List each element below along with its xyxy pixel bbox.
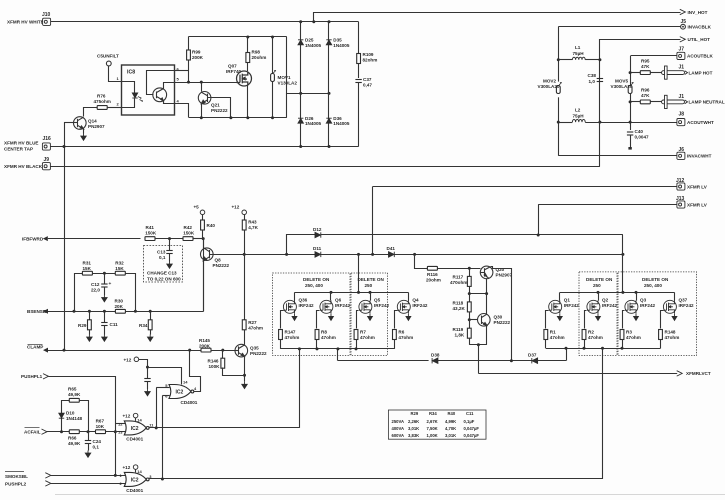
svg-text:BSENSE: BSENSE (27, 309, 46, 314)
faint page frame bottom (55, 494, 725, 496)
svg-text:XFMR LV: XFMR LV (687, 202, 708, 207)
svg-text:D11: D11 (313, 246, 322, 251)
wire Q3 gate (623, 311, 625, 329)
transistor Q20 (480, 266, 493, 279)
node SMOKSBL / PUSHPL1 riser (114, 474, 117, 477)
node R96 tap (629, 100, 632, 103)
svg-text:PN2222: PN2222 (250, 351, 267, 356)
resistor R40 (202, 215, 204, 221)
wire J9 rail (50, 166, 600, 168)
wire IC8 pin5 to Q07 gate (175, 82, 237, 84)
svg-text:IRF242: IRF242 (679, 303, 695, 308)
wire BSENSE corner to Q8 emitter (203, 311, 205, 313)
svg-text:DELETE ON: DELETE ON (303, 277, 330, 282)
wire gate1 pin5 riser (156, 388, 158, 428)
svg-text:600VA: 600VA (392, 433, 405, 438)
svg-text:INV_HOT: INV_HOT (688, 10, 708, 15)
svg-text:49,9K: 49,9K (68, 441, 81, 446)
svg-text:R147: R147 (285, 330, 296, 335)
wire ACOUTBLK (631, 55, 677, 57)
node gate2 out / pin5 riser (155, 426, 158, 429)
wire UTIL_HOT (600, 40, 681, 167)
svg-text:PN2222: PN2222 (211, 108, 228, 113)
svg-text:J7: J7 (679, 47, 685, 53)
MOSFET Q1 (549, 300, 562, 313)
svg-text:Q07: Q07 (228, 64, 237, 69)
svg-text:4,7K: 4,7K (248, 225, 258, 230)
node R117 top (468, 267, 471, 270)
svg-text:DELETE ON: DELETE ON (642, 277, 669, 282)
node J10/D35 (328, 20, 331, 23)
resistor R65 loop (62, 401, 70, 432)
svg-text:ACOUTWHT: ACOUTWHT (687, 120, 714, 125)
svg-text:82ohm: 82ohm (363, 57, 378, 62)
svg-text:J10: J10 (42, 12, 51, 18)
node R117 bottom (468, 292, 471, 295)
svg-text:C11: C11 (110, 322, 119, 327)
svg-text:47ohm: 47ohm (398, 335, 413, 340)
svg-text:R41: R41 (146, 225, 155, 230)
svg-text:C38: C38 (588, 73, 597, 78)
wire IFBFWRD (48, 238, 141, 240)
svg-text:47ohm: 47ohm (665, 335, 680, 340)
wire PUSHPL2 (51, 483, 126, 485)
svg-text:1N4005: 1N4005 (305, 121, 322, 126)
capacitor C37 (355, 80, 361, 83)
svg-text:47ohm: 47ohm (550, 335, 565, 340)
main bus from Q8 base (209, 254, 315, 256)
svg-text:47K: 47K (641, 93, 650, 98)
diode D26 (298, 118, 303, 123)
svg-text:20K: 20K (115, 304, 124, 309)
svg-text:250: 250 (365, 283, 373, 288)
svg-text:R65: R65 (68, 387, 77, 392)
svg-text:200K: 200K (199, 343, 211, 348)
svg-text:0,0047: 0,0047 (635, 135, 649, 140)
node R7 (355, 347, 358, 350)
node C11 (103, 310, 106, 313)
node Q21 base riser (229, 116, 232, 119)
diode D36 (326, 118, 331, 123)
svg-text:Q6: Q6 (335, 298, 342, 303)
node Q2 drain (597, 291, 600, 294)
capacitor C24 (88, 432, 90, 440)
svg-text:3,01K: 3,01K (445, 433, 456, 438)
svg-text:+12: +12 (123, 413, 131, 418)
svg-text:R32: R32 (115, 261, 124, 266)
svg-text:CD4001: CD4001 (126, 488, 143, 493)
svg-text:CENTER TAP: CENTER TAP (4, 147, 33, 152)
capacitor C26 (147, 367, 149, 378)
wire drive riser right bank (602, 348, 604, 479)
wire Q5 gate (357, 311, 359, 329)
arrow UTIL_HOT (680, 37, 686, 42)
dotted box DELETE ON 250,400 (right) (618, 272, 697, 356)
svg-text:Q1: Q1 (564, 298, 571, 303)
wire J12 riser (372, 187, 374, 255)
svg-text:1: 1 (117, 76, 120, 81)
wire J12 (373, 186, 677, 188)
svg-text:Q30: Q30 (494, 315, 503, 320)
svg-text:C12: C12 (91, 282, 100, 287)
wire right bank feed riser (622, 235, 624, 292)
svg-text:7,50K: 7,50K (427, 426, 438, 431)
node Q5 drain (369, 291, 372, 294)
svg-text:1N4148: 1N4148 (66, 416, 83, 421)
svg-text:47K: 47K (641, 64, 650, 69)
node Q6 drain (330, 291, 333, 294)
resistor R27 (244, 320, 246, 322)
arrow INV_HOT (680, 9, 686, 14)
svg-text:150K: 150K (183, 230, 195, 235)
svg-text:J9: J9 (44, 157, 50, 163)
wire riser to XFMRLVCT (478, 345, 480, 374)
svg-text:XFMRLVCT: XFMRLVCT (686, 371, 711, 376)
opto-isolator IC8 (122, 65, 175, 115)
svg-text:1,0: 1,0 (589, 79, 596, 84)
svg-text:R116: R116 (427, 272, 438, 277)
svg-text:C13: C13 (157, 250, 166, 255)
svg-text:20ohm: 20ohm (426, 278, 441, 283)
svg-text:75µH: 75µH (573, 113, 585, 118)
svg-text:D36: D36 (333, 116, 342, 121)
svg-text:15K: 15K (115, 266, 124, 271)
svg-text:R67: R67 (96, 419, 105, 424)
svg-text:R40: R40 (207, 223, 216, 228)
svg-text:47ohm: 47ohm (285, 335, 300, 340)
svg-text:R27: R27 (248, 320, 257, 325)
wire Q1 gate (546, 311, 549, 329)
divider loop top wire (75, 274, 83, 312)
node drive riser right (601, 347, 604, 350)
svg-text:PUSHPL2: PUSHPL2 (5, 481, 27, 486)
wire Q14 base riser down left side (64, 122, 66, 350)
wire Q6 gate (317, 311, 320, 329)
node bus end (621, 253, 624, 256)
node R116 riser (413, 253, 416, 256)
diode D12 branch (287, 235, 316, 255)
riser D-line to left gate bus (337, 349, 339, 361)
svg-text:R95: R95 (641, 59, 650, 64)
node J16/D26 (299, 145, 302, 148)
wire gate1 pin5 (156, 387, 169, 389)
wire Q2 gate (585, 311, 587, 329)
svg-text:+5: +5 (194, 205, 200, 210)
wire Q30 emitter (486, 326, 488, 345)
svg-text:R109: R109 (363, 52, 374, 57)
svg-text:+12: +12 (232, 205, 240, 210)
svg-text:13: 13 (118, 430, 123, 435)
capacitor C12 (104, 273, 106, 283)
svg-text:Q21: Q21 (211, 103, 220, 108)
node CLAMP/left riser (63, 349, 66, 352)
svg-text:C37: C37 (363, 77, 372, 82)
svg-text:5: 5 (177, 77, 180, 82)
svg-text:0,47: 0,47 (363, 82, 372, 87)
node R8 (316, 347, 319, 350)
dotted box DELETE ON 250,400 (left) (273, 273, 351, 356)
transistor Q8 (203, 239, 205, 312)
svg-text:C11: C11 (466, 411, 474, 416)
svg-text:R34: R34 (139, 323, 148, 328)
node Q3 drain (635, 291, 638, 294)
node D37 riser (565, 347, 568, 350)
svg-text:IFBFWRD: IFBFWRD (22, 236, 44, 241)
svg-text:UTIL_HOT: UTIL_HOT (688, 37, 711, 42)
svg-text:4,70K: 4,70K (445, 426, 456, 431)
table of values (388, 410, 486, 439)
svg-text:Q4: Q4 (412, 298, 419, 303)
resistor R3 (620, 330, 624, 340)
wire D-line (338, 360, 429, 362)
wire gate1 output to CLAMP (190, 351, 201, 392)
MOSFET Q3 (625, 300, 638, 313)
svg-text:470ohm: 470ohm (450, 280, 467, 285)
svg-text:250VA: 250VA (392, 419, 405, 424)
svg-text:3,83K: 3,83K (408, 433, 419, 438)
svg-text:PN2907: PN2907 (88, 124, 105, 129)
svg-text:DELETE ON: DELETE ON (586, 277, 613, 282)
resistor R43 (244, 215, 246, 221)
wire MOV2 branch (558, 27, 560, 82)
svg-text:IRF242: IRF242 (374, 303, 390, 308)
node J16/D36 (328, 145, 331, 148)
svg-text:R3: R3 (626, 330, 632, 335)
svg-text:Q35: Q35 (250, 346, 259, 351)
svg-text:14: 14 (137, 417, 142, 422)
wire gate1 pin6 riser (162, 396, 164, 480)
diode D25 (300, 22, 302, 147)
svg-text:12: 12 (118, 421, 123, 426)
node loop right (134, 310, 137, 313)
svg-text:0,047µF: 0,047µF (464, 426, 480, 431)
node D12 riser (285, 253, 288, 256)
resistor R6 (393, 330, 397, 340)
capacitor C11 (104, 311, 106, 322)
node J10/D25 (299, 20, 302, 23)
node C24 (87, 430, 90, 433)
node ACFAIL vertical (114, 430, 117, 433)
svg-text:+: + (109, 282, 112, 287)
wire C5UNFILT to IC8 pin 1 (109, 66, 122, 82)
node feed (357, 291, 360, 294)
node mid bridge left (299, 92, 302, 95)
MOSFET Q4 (397, 300, 410, 313)
resistor R147 (279, 330, 283, 340)
svg-text:Q36: Q36 (299, 298, 308, 303)
node Q21 emitter (200, 116, 203, 119)
svg-text:R8: R8 (321, 330, 327, 335)
transistor Q35 (235, 344, 248, 357)
diode D35 (328, 22, 330, 147)
svg-text:MOV1: MOV1 (278, 75, 291, 80)
varistor MOV1 (271, 71, 276, 82)
resistor R66 (69, 430, 79, 434)
svg-text:IC8: IC8 (127, 70, 135, 76)
svg-text:D35: D35 (333, 38, 342, 43)
rail bottom y117.7 (189, 117, 287, 119)
svg-text:V300LA20: V300LA20 (538, 84, 560, 89)
node Q21 collector (200, 81, 203, 84)
resistor R8 (315, 330, 319, 340)
wire INVACWHT (559, 155, 677, 157)
node L2 / C38 (598, 121, 601, 124)
svg-text:PN2907: PN2907 (496, 273, 513, 278)
NOR gate IC2a (169, 385, 194, 399)
MOSFET Q2 (587, 300, 600, 313)
svg-text:15K: 15K (83, 266, 92, 271)
svg-text:R99: R99 (192, 50, 201, 55)
svg-text:V300LA20: V300LA20 (611, 84, 633, 89)
resistor R148 (659, 330, 663, 340)
svg-text:D26: D26 (305, 116, 314, 121)
NOR gate IC2b (124, 421, 149, 435)
wire Q35 emitter (244, 356, 246, 381)
svg-text:0,1µF: 0,1µF (464, 419, 475, 424)
svg-text:J16: J16 (43, 136, 52, 142)
svg-text:IRF242: IRF242 (602, 303, 618, 308)
node R2 (583, 347, 586, 350)
arrow XFMRLVCT (677, 371, 683, 376)
node Q8 base top (202, 237, 205, 240)
resistor R34 (150, 311, 152, 320)
transistor Q14 (74, 117, 87, 130)
svg-text:C24: C24 (93, 439, 102, 444)
resistor R116 (415, 255, 428, 269)
svg-text:2,26K: 2,26K (408, 419, 419, 424)
svg-text:INVACBLK: INVACBLK (688, 25, 712, 30)
wire IC8 pin6 stub (175, 70, 189, 72)
svg-text:ACFAIL: ACFAIL (24, 430, 41, 435)
capacitor C13 in dotted box (144, 246, 183, 283)
svg-text:47ohm: 47ohm (248, 325, 263, 330)
node L2/MOV5 branch (629, 121, 632, 124)
svg-text:INVACWHT: INVACWHT (687, 154, 712, 159)
wire left bank feed riser (358, 254, 360, 292)
svg-text:R98: R98 (252, 50, 261, 55)
svg-text:Q37: Q37 (679, 298, 688, 303)
node Q20 emitter riser (510, 359, 513, 362)
rail top y37 (189, 36, 287, 38)
svg-text:150K: 150K (145, 230, 157, 235)
node R95 tap (629, 71, 632, 74)
wire J16 center tap rail (50, 146, 358, 148)
node riser drive (298, 347, 301, 350)
svg-text:400VA: 400VA (392, 426, 405, 431)
resistor R146 (222, 350, 224, 359)
svg-text:TO 0,22 ON 600: TO 0,22 ON 600 (147, 276, 181, 281)
svg-text:1N4005: 1N4005 (333, 43, 350, 48)
wire J10 to R109 branch (51, 21, 359, 23)
wire Q36 gate (281, 311, 284, 329)
svg-text:ACOUTBLK: ACOUTBLK (687, 54, 713, 59)
svg-text:XFMR HV WHITE: XFMR HV WHITE (7, 20, 44, 25)
node J12 riser (371, 253, 374, 256)
svg-text:IC2: IC2 (176, 390, 184, 396)
svg-text:LAMP HOT: LAMP HOT (689, 70, 713, 75)
node C12 (103, 272, 106, 275)
IC8 internal LED (122, 82, 135, 93)
svg-text:Q3: Q3 (640, 298, 647, 303)
svg-text:MOV2: MOV2 (543, 78, 556, 83)
svg-text:0,1: 0,1 (93, 444, 100, 449)
node R3 (621, 347, 624, 350)
node loop left (73, 310, 76, 313)
diode D10 (59, 413, 64, 418)
svg-text:L1: L1 (575, 45, 581, 50)
svg-text:Q5: Q5 (374, 298, 381, 303)
svg-text:IRF242: IRF242 (335, 303, 351, 308)
svg-text:10K: 10K (96, 424, 105, 429)
wire Q20 emitter (491, 267, 512, 361)
svg-text:D12: D12 (313, 227, 322, 232)
node C26 (146, 366, 149, 369)
svg-text:R145: R145 (199, 338, 210, 343)
node C13 tap (168, 237, 171, 240)
node L2 left (557, 121, 560, 124)
node L1 left (557, 58, 560, 61)
svg-text:1,8K: 1,8K (455, 333, 465, 338)
svg-text:R117: R117 (453, 275, 464, 280)
MOSFET Q36 (283, 300, 296, 313)
svg-text:CHANGE C13: CHANGE C13 (147, 271, 177, 276)
dotted box DELETE ON 250 (right) (579, 272, 617, 356)
node gate3 out / pin6 riser (161, 478, 164, 481)
svg-text:200K: 200K (192, 55, 204, 60)
svg-text:1N4005: 1N4005 (305, 43, 322, 48)
riser D-line to right gate bus (566, 348, 568, 360)
svg-text:250, 400: 250, 400 (644, 283, 662, 288)
svg-text:R76: R76 (97, 94, 106, 99)
svg-text:Q8: Q8 (215, 258, 222, 263)
MOSFET Q6 (320, 300, 333, 313)
svg-text:R40: R40 (448, 411, 456, 416)
wire IC8 pin4 stub (175, 104, 189, 118)
wire J5 line (558, 26, 680, 28)
svg-text:IRF242: IRF242 (299, 303, 315, 308)
svg-text:R43: R43 (248, 220, 257, 225)
svg-text:250, 400: 250, 400 (305, 283, 323, 288)
node Q20 collector (485, 292, 488, 295)
wire gate2 pin12 stub (115, 423, 126, 425)
resistor R2 (582, 330, 586, 340)
svg-text:D10: D10 (66, 411, 75, 416)
wire PUSHPL1 (49, 377, 116, 476)
node Q30 base (468, 318, 471, 321)
resistor R7 (354, 330, 358, 340)
svg-text:250: 250 (593, 283, 601, 288)
svg-text:D41: D41 (387, 246, 396, 251)
svg-text:R31: R31 (83, 261, 92, 266)
svg-text:XFMR HV BLUE: XFMR HV BLUE (4, 141, 38, 146)
svg-text:20ohm: 20ohm (252, 55, 267, 60)
svg-text:0,1: 0,1 (159, 255, 166, 260)
svg-text:SMOKSBL: SMOKSBL (5, 474, 28, 479)
varistor MOV2 (556, 83, 561, 94)
svg-text:IRF242: IRF242 (640, 303, 656, 308)
svg-text:R119: R119 (453, 327, 464, 332)
node R34 (149, 310, 152, 313)
wire Q20 collector (486, 279, 488, 294)
MOSFET Q37 (663, 300, 676, 313)
svg-text:+12: +12 (124, 357, 132, 362)
svg-text:PUSHPL1: PUSHPL1 (21, 374, 43, 379)
node left bank feed (357, 253, 360, 256)
node Q07 source (246, 116, 249, 119)
svg-text:47ohm: 47ohm (321, 335, 336, 340)
node bus/R43 (243, 253, 246, 256)
svg-text:0,047µF: 0,047µF (464, 433, 480, 438)
